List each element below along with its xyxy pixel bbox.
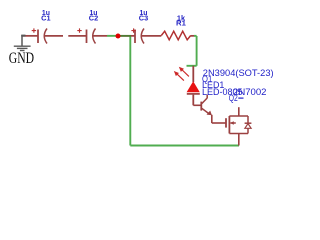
svg-text:GND: GND xyxy=(9,50,34,67)
svg-text:Q2: Q2 xyxy=(229,93,238,103)
svg-text:2N3904(SOT-23): 2N3904(SOT-23) xyxy=(203,68,274,78)
svg-text:C3: C3 xyxy=(139,16,149,23)
svg-text:C1: C1 xyxy=(41,16,51,23)
svg-text:2N7002: 2N7002 xyxy=(233,87,267,97)
svg-text:R1: R1 xyxy=(176,20,186,27)
svg-text:C2: C2 xyxy=(89,16,99,23)
